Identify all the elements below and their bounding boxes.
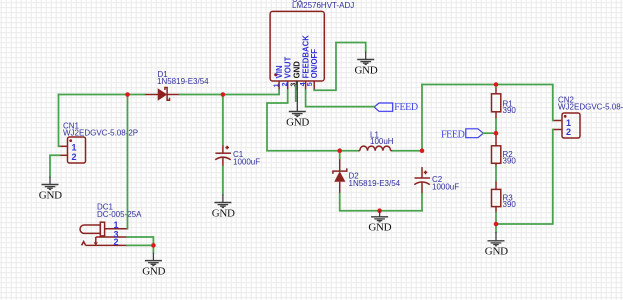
ground symbol below CN1 bbox=[39, 177, 62, 202]
svg-text:FEED: FEED bbox=[394, 102, 418, 113]
connector CN2 WJ2EDGVC-5.08-2P bbox=[553, 113, 580, 138]
inductor L1 100uH bbox=[358, 146, 394, 151]
ground symbol for ON/OFF bbox=[355, 52, 378, 77]
svg-text:ON/OFF: ON/OFF bbox=[310, 49, 319, 79]
svg-text:GND: GND bbox=[212, 207, 235, 219]
wire CN1 pin2 to ground bbox=[50, 155, 60, 176]
ground symbol below C1 bbox=[212, 195, 235, 220]
svg-text:390: 390 bbox=[503, 157, 517, 166]
wire U1 ON/OFF to ground bbox=[314, 43, 366, 91]
junction at VIN rail / DC1 branch bbox=[125, 92, 130, 97]
net flag FEED (to R1/R2 divider) bbox=[441, 129, 483, 141]
svg-text:2: 2 bbox=[72, 152, 77, 162]
svg-text:GND: GND bbox=[286, 116, 309, 128]
regulator U1 LM2576HVT-ADJ bbox=[270, 11, 324, 90]
svg-text:100uH: 100uH bbox=[370, 137, 394, 146]
svg-text:GND: GND bbox=[368, 222, 391, 234]
svg-text:GND: GND bbox=[355, 64, 378, 76]
svg-text:390: 390 bbox=[503, 200, 517, 209]
junction at R3/CN2/ground bbox=[494, 222, 499, 227]
wire VIN rail right of D1 bbox=[180, 90, 280, 94]
wire CN1 pin1 to VIN rail bbox=[59, 95, 60, 147]
diode D2 1N5819-E3/54 bbox=[333, 159, 347, 194]
wire VIN rail (CN1 to U1 pin1) bbox=[59, 94, 145, 96]
svg-text:4: 4 bbox=[300, 82, 307, 86]
svg-text:WJ2EDGVC-5.08-2P: WJ2EDGVC-5.08-2P bbox=[558, 103, 623, 112]
svg-text:DC-005-25A: DC-005-25A bbox=[97, 210, 142, 219]
wire C2 to bottom rail bbox=[421, 194, 423, 211]
svg-text:VOUT: VOUT bbox=[284, 57, 293, 79]
svg-text:GND: GND bbox=[293, 61, 302, 79]
svg-text:GND: GND bbox=[39, 189, 62, 201]
connector CN1 WJ2EDGVC-5.08-2P bbox=[60, 137, 86, 163]
junction at R1/R2/FEED bbox=[494, 131, 499, 136]
wire U1 GND pin to ground symbol bbox=[295, 86, 297, 101]
wire riser to VOUT rail bbox=[421, 85, 423, 151]
wire R1 top from VOUT rail bbox=[495, 85, 497, 88]
wire R3 bottom to ground junction bbox=[495, 213, 497, 224]
ground symbol on bottom rail bbox=[368, 211, 391, 234]
svg-text:1000uF: 1000uF bbox=[233, 157, 260, 166]
net flag FEED (from U1 feedback pin) bbox=[374, 102, 418, 113]
junction at VIN rail / C1 branch bbox=[221, 92, 226, 97]
svg-text:GND: GND bbox=[142, 266, 165, 278]
svg-text:1: 1 bbox=[273, 83, 280, 87]
wire VOUT rail to CN2 pin1 bbox=[422, 85, 553, 121]
wire bottom rail ground stub bbox=[379, 211, 381, 212]
wire L1 right to C2/rail junction bbox=[393, 150, 422, 152]
resistor R1 390 bbox=[492, 87, 501, 119]
ground symbol below DC1 bbox=[142, 253, 165, 278]
svg-text:390: 390 bbox=[503, 106, 517, 115]
wire R1 bottom to junction bbox=[495, 119, 497, 134]
resistor R2 390 bbox=[492, 134, 501, 167]
wire C1 branch from VIN rail bbox=[222, 95, 224, 145]
connector DC1 DC-005-25A (barrel jack) bbox=[80, 222, 127, 245]
junction at VOUT rail / R1 bbox=[494, 82, 499, 87]
diode D1 1N5819-E3/54 bbox=[144, 88, 179, 101]
junction at DC1 ground bbox=[151, 243, 156, 248]
wire DC1 pin1 riser bbox=[127, 95, 129, 229]
capacitor C1 1000uF bbox=[215, 145, 231, 167]
ground symbol below R3 bbox=[485, 232, 508, 258]
wire R2 to R3 bbox=[495, 167, 497, 181]
svg-text:1: 1 bbox=[114, 220, 119, 230]
svg-text:2: 2 bbox=[566, 127, 571, 137]
junction at buck node / D2 bbox=[337, 148, 342, 153]
ground symbol at U1 GND pin bbox=[286, 81, 309, 128]
resistor R3 390 bbox=[492, 181, 501, 213]
svg-text:2: 2 bbox=[282, 82, 289, 86]
svg-text:5: 5 bbox=[307, 82, 314, 86]
wire C1 to ground bbox=[222, 167, 224, 195]
svg-text:LM2576HVT-ADJ: LM2576HVT-ADJ bbox=[292, 1, 354, 10]
svg-text:2: 2 bbox=[114, 237, 119, 247]
wire ground junction to ground symbol bbox=[495, 224, 497, 232]
wire U1 VOUT down-left to buck node bbox=[267, 90, 358, 151]
svg-text:1000uF: 1000uF bbox=[432, 182, 459, 191]
wire U1 FEEDBACK to FEED flag bbox=[306, 90, 375, 107]
capacitor C2 1000uF bbox=[414, 167, 430, 194]
wire D2 anode to bottom rail bbox=[340, 194, 422, 211]
svg-text:1N5819-E3/54: 1N5819-E3/54 bbox=[157, 77, 209, 86]
junction at bottom rail ground bbox=[377, 208, 382, 213]
svg-text:GND: GND bbox=[485, 246, 508, 258]
junction at L1 out / C2 / riser bbox=[420, 148, 425, 153]
wire CN2 pin2 to ground junction bbox=[496, 130, 553, 225]
wire D2 cathode from buck node bbox=[339, 151, 341, 159]
svg-text:FEED: FEED bbox=[441, 130, 465, 141]
wire FEED flag to divider junction bbox=[483, 132, 496, 134]
svg-text:1N5819-E3/54: 1N5819-E3/54 bbox=[349, 179, 401, 188]
wire DC1 pin2 to ground junction bbox=[127, 245, 153, 252]
wire DC1 pin3 to ground junction bbox=[127, 237, 153, 245]
